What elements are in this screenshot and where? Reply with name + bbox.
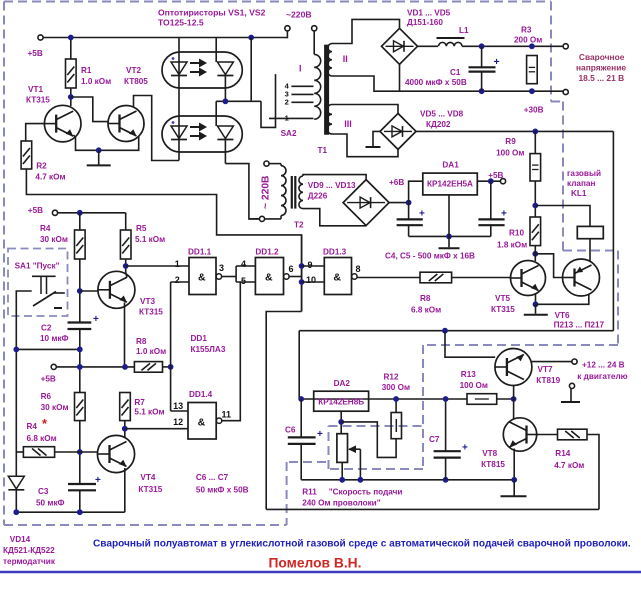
- resistor R14: [558, 429, 588, 440]
- diode VD14 thermal sensor: [15, 452, 17, 476]
- resistor R1: [70, 38, 72, 60]
- T2 core: [291, 176, 293, 209]
- svg-text:4.7 кОм: 4.7 кОм: [35, 172, 65, 181]
- svg-text:2: 2: [175, 275, 180, 285]
- transistor VT1: [44, 105, 81, 142]
- potentiometer R11: [337, 434, 348, 463]
- wire to relay KL1: [535, 206, 590, 227]
- svg-text:VD1 ... VD5: VD1 ... VD5: [407, 9, 451, 18]
- diode bridge VD9...VD13: [343, 180, 389, 226]
- svg-text:Д151-160: Д151-160: [407, 18, 443, 27]
- wire VT4 emitter: [124, 468, 126, 512]
- svg-text:30 кОм: 30 кОм: [40, 235, 68, 244]
- wire to SA2 arm: [261, 74, 276, 127]
- capacitor C1: [481, 46, 483, 67]
- resistor R2: [21, 141, 32, 169]
- resistor R9: [534, 131, 536, 153]
- junction VT7 feed: [442, 328, 448, 334]
- svg-text:+: +: [93, 314, 99, 325]
- regulator DA1: [423, 173, 478, 195]
- junction C1 bottom: [479, 88, 485, 94]
- svg-text:клапан: клапан: [567, 179, 595, 188]
- svg-text:11: 11: [222, 410, 232, 420]
- svg-text:C4, C5 - 500 мкФ x 16В: C4, C5 - 500 мкФ x 16В: [385, 251, 475, 260]
- wire VT5 base from R8: [452, 277, 511, 279]
- resistor R4* 6.8k: [23, 447, 54, 458]
- wire R4* left: [16, 451, 23, 453]
- junction R10 bottom: [532, 251, 538, 257]
- svg-text:+5В: +5В: [28, 206, 43, 215]
- svg-text:100 Ом: 100 Ом: [496, 148, 524, 157]
- junction VD14 gnd: [13, 509, 19, 515]
- wire VT8 emitter: [513, 449, 515, 480]
- svg-text:III: III: [344, 119, 352, 129]
- wire R2 to logic node (long): [26, 169, 301, 312]
- svg-text:R1: R1: [81, 66, 92, 75]
- wire DD1.3 output to R8: [357, 277, 420, 279]
- junction left leg: [13, 347, 19, 353]
- svg-text:К155ЛА3: К155ЛА3: [191, 345, 226, 354]
- svg-text:Оптотиристоры VS1, VS2: Оптотиристоры VS1, VS2: [158, 8, 266, 18]
- svg-text:термодатчик: термодатчик: [3, 557, 56, 566]
- relay KL1 coil: [577, 226, 603, 238]
- svg-text:КТ315: КТ315: [138, 485, 162, 494]
- svg-text:DD1.4: DD1.4: [189, 390, 213, 399]
- wire R1 bottom to VT2 base: [71, 97, 108, 122]
- dashed box around SA1: [8, 249, 68, 317]
- resistor R12: [391, 413, 401, 439]
- wire relay to VT6 collector: [589, 239, 591, 261]
- svg-text:КР142ЕН8Б: КР142ЕН8Б: [318, 398, 364, 407]
- svg-text:VT6: VT6: [555, 311, 570, 320]
- capacitor C6: [300, 399, 302, 437]
- resistor R7: [120, 393, 131, 421]
- junction R4 top: [77, 210, 83, 216]
- wire VT7 base from rail: [445, 331, 495, 358]
- junction R1 top: [68, 35, 74, 41]
- svg-text:Сварочное: Сварочное: [579, 52, 625, 62]
- svg-text:R8: R8: [420, 294, 431, 303]
- wire solid box right edge: [612, 131, 614, 330]
- ground motor return: [570, 388, 572, 401]
- svg-text:+5В: +5В: [28, 49, 43, 58]
- transistor VT8: [503, 418, 536, 451]
- dashed box around R11: [328, 426, 330, 469]
- wire bridge output to L1: [418, 45, 439, 47]
- svg-text:T2: T2: [294, 221, 304, 230]
- svg-text:КТ815: КТ815: [481, 460, 505, 469]
- wire VT5 emitter down: [535, 293, 537, 304]
- svg-text:R2: R2: [36, 161, 47, 170]
- svg-text:газовый: газовый: [567, 169, 601, 178]
- junction R7 top: [122, 364, 128, 370]
- svg-text:DA1: DA1: [442, 161, 459, 170]
- junction R3 bottom: [529, 88, 535, 94]
- wire to DD1.3 inputs: [302, 265, 325, 267]
- wire +5V top rail: [43, 37, 287, 39]
- resistor R8 6.8k: [420, 272, 452, 283]
- junction thyristor VS1 cathode: [223, 98, 229, 104]
- wire VT4 collector to DD1.4 pin12: [125, 428, 188, 430]
- T1 core: [324, 45, 329, 135]
- wire DD1.1 output to DD1.2 inputs: [222, 276, 236, 278]
- wire bottom rail DA2 section: [301, 479, 514, 481]
- wire LED chain vertical: [178, 38, 180, 161]
- wire VT7 collector: [513, 385, 515, 399]
- junction emitters: [96, 147, 102, 153]
- junction wiper bottom: [358, 477, 364, 483]
- svg-text:КД521-КД522: КД521-КД522: [3, 546, 55, 555]
- wire R12 top: [395, 399, 397, 413]
- wire +30V lower rail: [299, 330, 613, 332]
- junction R3 top: [529, 43, 535, 49]
- terminal T2 bottom: [259, 216, 264, 221]
- logic gate DD1.3: [324, 258, 351, 295]
- resistor R5: [125, 213, 127, 230]
- dashed border right path: [550, 2, 552, 102]
- svg-text:3: 3: [219, 263, 224, 273]
- wire bridge to DA1 +6V: [389, 202, 409, 204]
- svg-text:КТ819: КТ819: [536, 376, 560, 385]
- svg-text:C7: C7: [429, 435, 440, 444]
- resistor R6: [75, 393, 86, 421]
- wire R5 bottom to VT3 collector and DD1.1 pin1: [125, 259, 127, 272]
- wire R14 return loop: [587, 435, 599, 510]
- wire VT8 base to R14: [537, 434, 558, 436]
- junction pin12 node: [122, 426, 128, 432]
- wire C2 to left leg: [16, 348, 80, 350]
- wire +30V rail: [416, 130, 613, 132]
- svg-text:1: 1: [175, 259, 180, 269]
- svg-text:+: +: [317, 429, 323, 440]
- svg-text:&: &: [333, 272, 341, 284]
- wire R10 to VT6 base: [535, 254, 562, 278]
- svg-text:50 мкФ x 50В: 50 мкФ x 50В: [196, 486, 249, 495]
- wire terminal to top rail: [286, 36, 288, 38]
- wire VT1 base to R2: [26, 124, 45, 141]
- wire DA2 gnd pin: [340, 411, 342, 434]
- svg-text:+: +: [419, 209, 425, 220]
- terminal +5V right: [500, 179, 505, 184]
- junction pin10: [299, 279, 305, 285]
- T2 secondary: [299, 176, 303, 209]
- svg-text:II: II: [343, 54, 348, 64]
- ground VT1/VT2 emitters: [98, 150, 100, 164]
- T1 winding III: [327, 105, 332, 135]
- svg-text:~220В: ~220В: [286, 10, 312, 20]
- wire +5V mid rail: [58, 212, 126, 214]
- logic gate DD1.1: [189, 258, 216, 295]
- junction VT4 base node: [77, 449, 83, 455]
- bottom rule: [0, 571, 641, 574]
- svg-text:+: +: [501, 209, 507, 220]
- terminal +5V lower: [51, 364, 56, 369]
- svg-text:R7: R7: [134, 398, 145, 407]
- svg-text:Помелов В.Н.: Помелов В.Н.: [269, 556, 362, 571]
- svg-text:DD1.3: DD1.3: [323, 248, 347, 257]
- resistor R13: [467, 394, 497, 405]
- transistor VT4: [97, 435, 134, 472]
- diode bridge VD5...VD8: [380, 113, 416, 149]
- wire VT3 collector: [126, 272, 127, 278]
- svg-text:C3: C3: [38, 487, 49, 496]
- transformer T2 primary: [280, 164, 282, 166]
- logic gate DD1.4: [188, 403, 216, 440]
- wire R4* to base node: [55, 451, 80, 453]
- svg-text:R6: R6: [41, 392, 52, 401]
- svg-text:+30В: +30В: [524, 106, 544, 115]
- wire to winding I: [313, 31, 315, 55]
- capacitor C3: [68, 483, 96, 485]
- wire R8 right: [163, 366, 171, 368]
- svg-text:R14: R14: [555, 449, 570, 458]
- wire base VT3: [80, 290, 99, 292]
- svg-text:L1: L1: [459, 26, 469, 35]
- svg-text:R11: R11: [302, 488, 317, 497]
- transistor VT7: [495, 349, 532, 386]
- wire VT6 emitter: [536, 294, 589, 305]
- svg-text:10: 10: [306, 275, 316, 285]
- svg-text:+12 ... 24 В: +12 ... 24 В: [582, 361, 625, 370]
- wire R11 bottom: [341, 462, 343, 479]
- capacitor C2: [68, 321, 92, 323]
- wire +5V lower rail: [56, 366, 134, 368]
- svg-text:"Скорость подачи: "Скорость подачи: [329, 488, 403, 497]
- svg-text:VT4: VT4: [140, 473, 155, 482]
- node +5V top terminal: [38, 35, 43, 40]
- svg-text:1: 1: [285, 114, 289, 123]
- junction C2 bottom: [77, 347, 83, 353]
- terminal 220V right: [312, 26, 317, 31]
- svg-text:50 мкФ: 50 мкФ: [36, 499, 65, 508]
- dashed border top edge: [4, 1, 551, 3]
- svg-text:5.1 кОм: 5.1 кОм: [135, 235, 165, 244]
- junction relay feed: [532, 203, 538, 209]
- logic gate DD1.2: [255, 258, 283, 295]
- wire VT1 emitter: [74, 135, 139, 150]
- wire SA1 left leg: [16, 291, 31, 452]
- wire R6 bottom: [79, 421, 81, 484]
- svg-text:&: &: [198, 272, 206, 284]
- junction DA1 gnd: [446, 234, 452, 240]
- T1 winding II: [328, 44, 332, 77]
- svg-text:VD5 ... VD8: VD5 ... VD8: [420, 110, 464, 119]
- svg-text:C1: C1: [450, 68, 461, 77]
- svg-text:240 Ом проволоки": 240 Ом проволоки": [302, 499, 381, 508]
- svg-text:ТО125-12.5: ТО125-12.5: [158, 18, 204, 28]
- svg-text:VT3: VT3: [140, 297, 155, 306]
- junction R12 top: [393, 396, 399, 402]
- wire thyristor rail: [216, 100, 261, 102]
- junction R1 bottom: [68, 94, 74, 100]
- transistor VT6: [563, 259, 600, 296]
- optothyristor VS1: [162, 52, 242, 88]
- capacitor C5: [490, 181, 492, 219]
- svg-text:KL1: KL1: [571, 189, 587, 198]
- resistor R8 1k: [134, 362, 162, 373]
- svg-text:КТ315: КТ315: [491, 305, 515, 314]
- wire +6V up to DA1 input: [409, 181, 423, 202]
- junction C1 top: [479, 43, 485, 49]
- svg-text:1.8 кОм: 1.8 кОм: [497, 240, 527, 249]
- junction +5V out: [488, 178, 494, 184]
- terminal motor -: [569, 383, 574, 388]
- transistor VT3: [98, 271, 135, 308]
- terminal welding +: [563, 44, 568, 49]
- wire feedback down: [266, 312, 301, 510]
- svg-text:2: 2: [285, 98, 289, 107]
- ground bridge2 left corner: [373, 131, 380, 146]
- svg-text:к двигателю: к двигателю: [577, 372, 627, 381]
- ground DA1: [448, 236, 450, 247]
- svg-text:C6 ... C7: C6 ... C7: [196, 473, 229, 482]
- svg-text:DD1.2: DD1.2: [255, 248, 279, 257]
- wire winding II to bridge VD1-VD5: [332, 19, 400, 43]
- svg-text:1.0 кОм: 1.0 кОм: [136, 347, 166, 356]
- svg-text:КТ315: КТ315: [139, 308, 163, 317]
- terminal 220V left: [285, 26, 290, 31]
- wire VT7 emitter to terminal: [532, 361, 572, 363]
- wire L1 to output: [462, 45, 563, 47]
- wire DD1.1 pin2 / DD1.4 pin13: [170, 282, 172, 411]
- junction VT3 base: [77, 288, 83, 294]
- svg-text:VD9 ... VD13: VD9 ... VD13: [308, 181, 356, 190]
- junction C3 gnd: [77, 509, 83, 515]
- svg-text:30 кОм: 30 кОм: [41, 403, 69, 412]
- terminal +5V mid: [52, 210, 57, 215]
- transformer T1 winding I: [314, 54, 320, 119]
- svg-text:R5: R5: [136, 224, 147, 233]
- junction R13 left node: [443, 396, 449, 402]
- transistor VT2: [108, 106, 144, 142]
- dashed border bottom-middle link: [287, 461, 326, 463]
- svg-text:R3: R3: [521, 26, 532, 35]
- junction R8 to pin2/pin13 wire: [168, 364, 174, 370]
- svg-text:100 Ом: 100 Ом: [460, 381, 488, 390]
- junction DA2 rail left: [298, 396, 304, 402]
- wire base VT4: [80, 451, 98, 453]
- junction top wire to thyristor rail: [248, 35, 254, 41]
- svg-text:5: 5: [241, 276, 246, 286]
- wire thyristor VS2 anode: [215, 101, 217, 126]
- svg-text:напряжение: напряжение: [576, 63, 626, 73]
- junction pin9: [299, 263, 305, 269]
- svg-text:Д226: Д226: [308, 191, 328, 200]
- inductor L1: [439, 42, 463, 46]
- wire thyristor VS1 anode: [215, 38, 217, 63]
- svg-text:VT5: VT5: [495, 294, 510, 303]
- wire DD1.2 output node: [289, 276, 301, 278]
- svg-text:13: 13: [173, 401, 183, 411]
- svg-text:VT7: VT7: [538, 365, 553, 374]
- capacitor C7: [445, 399, 447, 451]
- wire DA1 ground rail: [409, 235, 491, 237]
- resistor R4 30k: [79, 213, 81, 230]
- wire R13 right: [497, 398, 514, 400]
- wire C2 bottom: [79, 329, 81, 393]
- diode bridge VD1...VD5: [382, 28, 418, 64]
- svg-text:SA2: SA2: [281, 129, 297, 138]
- ground VT5 VT6: [535, 304, 537, 314]
- svg-text:КР142ЕН5А: КР142ЕН5А: [427, 180, 473, 189]
- wire T2 secondary to bridge VD9-VD13: [303, 175, 366, 180]
- svg-text:R12: R12: [384, 372, 399, 381]
- resistor R3: [527, 56, 538, 84]
- svg-text:200 Ом: 200 Ом: [514, 36, 542, 45]
- svg-text:9: 9: [308, 260, 313, 270]
- wire DA2 rail: [299, 398, 467, 400]
- wire to DA2 input: [298, 331, 300, 399]
- svg-text:КТ805: КТ805: [124, 77, 148, 86]
- capacitor C4: [408, 203, 410, 220]
- wire R4 to VT3 base node: [79, 259, 81, 323]
- svg-text:&: &: [198, 416, 206, 428]
- wire winding III to bridge VD5-VD8: [332, 105, 398, 114]
- wire R9 bottom: [534, 181, 536, 217]
- wire thyristor VS1 cathode: [224, 76, 226, 102]
- regulator DA2: [314, 391, 369, 411]
- svg-text:R10: R10: [509, 228, 524, 237]
- junction VT8 emitter: [511, 477, 517, 483]
- svg-text:+: +: [462, 443, 468, 454]
- resistor R10: [530, 217, 541, 246]
- svg-text:VT1: VT1: [28, 85, 43, 94]
- svg-text:DD1.1: DD1.1: [188, 248, 212, 257]
- wire DA1 ground pin: [448, 195, 450, 237]
- svg-text:&: &: [265, 272, 273, 284]
- svg-text:П213 ... П217: П213 ... П217: [554, 321, 605, 330]
- R11 wiper: [349, 448, 360, 450]
- ground VT8: [513, 480, 515, 496]
- wire ground rail bottom-left: [16, 511, 125, 513]
- wire collector node to VT8: [513, 399, 515, 420]
- wire top to thyristor rail: [250, 38, 252, 102]
- svg-text:18.5 ... 21 В: 18.5 ... 21 В: [579, 73, 625, 83]
- junction VT7/VT8 node: [511, 396, 517, 402]
- svg-text:SA1 "Пуск": SA1 "Пуск": [15, 261, 60, 270]
- svg-text:R9: R9: [505, 137, 516, 146]
- svg-text:+: +: [494, 56, 500, 68]
- svg-text:10 мкФ: 10 мкФ: [40, 334, 69, 343]
- svg-text:300 Ом: 300 Ом: [382, 383, 410, 392]
- terminal T2 top: [264, 161, 269, 166]
- svg-text:VT8: VT8: [482, 449, 497, 458]
- wire bottom return to R14: [266, 508, 599, 510]
- svg-text:8: 8: [356, 264, 361, 274]
- svg-text:+6В: +6В: [389, 178, 404, 187]
- svg-text:~ 220В: ~ 220В: [261, 176, 272, 210]
- svg-text:4.7 кОм: 4.7 кОм: [554, 461, 584, 470]
- svg-text:6.8 кОм: 6.8 кОм: [411, 305, 441, 314]
- wire bottom output rail: [400, 90, 564, 92]
- svg-text:C6: C6: [285, 425, 296, 434]
- terminal welding -: [563, 89, 568, 94]
- svg-text:6.8 кОм: 6.8 кОм: [27, 434, 57, 443]
- svg-text:КТ315: КТ315: [26, 96, 50, 105]
- wire C3 bottom: [79, 490, 81, 512]
- svg-text:T1: T1: [318, 146, 328, 155]
- wire DA1 output +5V: [477, 180, 500, 182]
- wire R10 to VT5 collector: [534, 246, 536, 261]
- svg-text:+5В: +5В: [41, 375, 56, 384]
- svg-text:I: I: [299, 64, 302, 74]
- svg-text:КД202: КД202: [426, 120, 451, 129]
- wire VT3 emitter down: [124, 303, 126, 367]
- svg-text:12: 12: [173, 417, 183, 427]
- svg-text:VD14: VD14: [10, 535, 31, 544]
- junction DA2 adj: [338, 419, 344, 425]
- wire VT2 collector to opto LEDs: [134, 96, 180, 161]
